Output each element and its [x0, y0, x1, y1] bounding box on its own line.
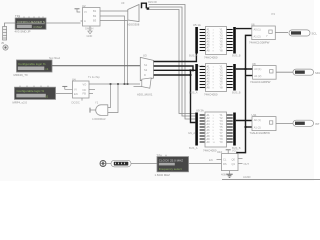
svg-text:GND: GND [87, 34, 93, 38]
svg-text:B2: B2 [93, 14, 97, 18]
wire: fan B to row3 bus [149, 7, 196, 116]
svg-text:CLOCK 25.0 MHZ: CLOCK 25.0 MHZ [159, 159, 184, 163]
svg-text:BUS_A: BUS_A [189, 54, 198, 58]
transceiver U2 [81, 4, 101, 38]
svg-text:VI: VI [84, 10, 87, 14]
row1 left pin dashes [200, 30, 206, 51]
svg-text:P4: P4 [272, 12, 276, 16]
wire: gate U6 output [275, 32, 288, 34]
svg-text:MRF49_TX: MRF49_TX [14, 73, 28, 77]
svg-text:74HC4050: 74HC4050 [204, 56, 218, 60]
wire: crystal left pin [90, 109, 96, 111]
power tick for crystal [89, 108, 91, 113]
thick wire: vertical net V2 feeding gate second inputs [237, 35, 252, 153]
wire: U4 output rail to mux [89, 83, 140, 85]
svg-text:AGND: AGND [243, 175, 251, 179]
wire: U2 pin B1 to level shifter [100, 10, 128, 12]
svg-text:U3: U3 [143, 53, 147, 57]
junction W2/W3 [192, 69, 194, 71]
svg-text:CONFIG HEADER S: CONFIG HEADER S [17, 20, 45, 24]
svg-text:Tx & chip: Tx & chip [88, 75, 100, 79]
svg-text:74AHC1G08PW: 74AHC1G08PW [250, 80, 271, 84]
junction dots on rail [110, 83, 112, 85]
svg-text:B1: B1 [93, 9, 97, 13]
svg-text:J5: J5 [1, 41, 4, 45]
svg-text:CL: CL [223, 158, 227, 162]
wire: B1 to mux [52, 65, 140, 67]
wire: crystal pin 2 up to rail [108, 84, 118, 113]
wire: U10 left stub [217, 159, 222, 161]
svg-text:Q1: Q1 [232, 162, 236, 166]
wire: B3 to U10 [189, 163, 222, 165]
svg-text:1.8432 MHZ: 1.8432 MHZ [155, 173, 171, 177]
svg-text:A0 (1): A0 (1) [254, 27, 261, 31]
svg-text:U5 1A: U5 1A [193, 23, 201, 27]
antenna connector J5 [1, 27, 7, 46]
svg-text:4 MHZ: 4 MHZ [33, 25, 42, 29]
buffer IC U5 [206, 27, 227, 55]
svg-text:TP1: TP1 [15, 14, 21, 18]
wire: gate U11 output [276, 122, 293, 124]
wire circle to oval [106, 163, 111, 165]
svg-text:A0 (1): A0 (1) [254, 118, 261, 122]
svg-text:4060: 4060 [221, 172, 227, 176]
row3 left pin dashes [200, 115, 205, 142]
svg-text:FB: FB [83, 92, 87, 96]
wire: U2 pin B2 down to analog bus [100, 16, 125, 84]
row3 right pin dashes [227, 115, 233, 142]
svg-text:SN65H: SN65H [85, 27, 93, 31]
wire: U2 pin B3 down to analog bus [100, 21, 128, 85]
svg-text:Configurable logic %: Configurable logic % [18, 62, 46, 66]
svg-text:Y1: Y1 [95, 100, 99, 104]
counter U10 [217, 150, 238, 171]
thick wire: V2 to gate G3 input 2 [246, 126, 253, 128]
thick wire W3: mux out 3 to row2 bus [154, 69, 197, 71]
svg-text:BUS_B: BUS_B [232, 91, 241, 95]
VCC symbol for U4 [62, 86, 72, 89]
svg-text:A: A [84, 19, 86, 23]
thick wire: row3 bus to gate G3 input 1 [236, 120, 252, 122]
row2 left pin dashes [200, 67, 206, 88]
svg-text:NC: NC [83, 88, 87, 92]
svg-text:GN_A: GN_A [188, 131, 195, 135]
net oval CLKOUT [111, 160, 131, 167]
thick wire: row1 bus to gate G1 input 1 [236, 28, 252, 30]
svg-text:Frequency select: Frequency select [159, 167, 182, 171]
VCC symbol above U2 [75, 9, 81, 12]
row2 right bus bar [233, 64, 236, 91]
config block B2 [13, 86, 56, 105]
wire: gate U8 output [276, 71, 293, 73]
svg-text:D: D [144, 73, 146, 77]
wire: fan C to row3 bus [149, 10, 196, 114]
junction V2 row3 [245, 126, 247, 128]
junction node [147, 7, 150, 9]
sheet background [0, 0, 320, 185]
svg-text:VO: VO [83, 83, 87, 87]
level shifter U9 (small trapezoid) [121, 1, 140, 27]
crystal Y1 (rounded-left shape) [92, 100, 108, 120]
net flag row2 [293, 69, 320, 75]
bottom rail wire [222, 179, 320, 181]
thick wire: row2 bus to gate G2 input 1 [236, 68, 253, 70]
svg-text:74HC4050: 74HC4050 [203, 149, 217, 153]
svg-text:EN: EN [74, 92, 78, 96]
regulator U4 [72, 78, 90, 105]
svg-text:VCC: VCC [232, 148, 238, 152]
gate U6 [249, 23, 275, 45]
svg-text:A0 (1): A0 (1) [254, 67, 261, 71]
svg-text:INT: INT [315, 122, 320, 126]
svg-text:Y2: Y2 [157, 153, 161, 157]
svg-text:ADG3308: ADG3308 [127, 23, 140, 27]
wire: jumper block to U2 [46, 22, 81, 24]
svg-text:MRF4_v2.0: MRF4_v2.0 [13, 100, 28, 104]
svg-text:4.0000MHZ: 4.0000MHZ [92, 117, 106, 121]
wire: connector to jumper block [5, 23, 16, 27]
svg-text:A1 (2): A1 (2) [254, 34, 261, 38]
svg-text:4V3 SMD JP: 4V3 SMD JP [15, 29, 31, 33]
svg-text:BUS_A: BUS_A [189, 91, 198, 95]
row2 right pin dashes [227, 67, 233, 88]
buffer IC U7 [206, 64, 227, 92]
wire: mux select stub [134, 85, 143, 87]
buffer IC row3 [205, 112, 227, 147]
svg-text:SCL: SCL [312, 32, 318, 36]
junction V2 row2 [245, 68, 247, 70]
svg-text:RS: RS [223, 162, 227, 166]
svg-text:BUS_A: BUS_A [189, 146, 198, 150]
row1 right bus bar [233, 27, 236, 54]
svg-text:Y: Y [266, 34, 268, 38]
svg-text:DC/DC: DC/DC [72, 100, 80, 104]
svg-text:Not fitted: Not fitted [49, 56, 61, 60]
ground below U10 [226, 171, 232, 178]
svg-text:VI: VI [74, 88, 77, 92]
svg-text:Configurable logic %: Configurable logic % [17, 89, 45, 93]
analog mux U3 (trapezoid) [137, 53, 154, 96]
svg-text:v2: v2 [45, 94, 49, 98]
wire: fan A to row3 bus [149, 5, 196, 120]
svg-text:EN: EN [209, 158, 213, 162]
svg-text:74AHC1G08PW: 74AHC1G08PW [250, 131, 271, 135]
svg-text:Q0: Q0 [232, 158, 236, 162]
jumper block TP1 (top-left dark block) [15, 14, 47, 34]
thick wire: V2 to gate G2 input 2 [246, 75, 253, 77]
svg-text:74HC4050: 74HC4050 [204, 93, 218, 97]
svg-text:R29 0R: R29 0R [148, 0, 157, 4]
wire: B2 to U4 [56, 93, 73, 95]
row3 left bus bar [195, 113, 198, 146]
thick wire W2: mux out 2 elbow [154, 66, 193, 70]
wire: oval to block B3 [131, 163, 157, 165]
thick wire W1: mux out 1 up to row1 bus [154, 53, 197, 61]
svg-text:ADG_MUX1: ADG_MUX1 [137, 93, 153, 97]
svg-text:v1: v1 [45, 67, 49, 71]
logo mark [3, 45, 8, 50]
svg-text:S2: S2 [144, 68, 148, 72]
svg-text:OUT: OUT [244, 162, 250, 166]
wire: U10 right stubs [238, 158, 243, 160]
gate U11 [250, 113, 277, 135]
thick feed elbow wire [142, 3, 147, 8]
svg-text:S1: S1 [144, 63, 148, 67]
svg-text:U9 3A: U9 3A [196, 108, 204, 112]
net flag row3 [293, 120, 320, 126]
svg-text:BUS_B: BUS_B [232, 54, 241, 58]
row3 right bus bar [233, 113, 236, 146]
config block B3 (oscillator block) [155, 153, 189, 177]
svg-text:U9: U9 [121, 1, 125, 5]
net flag row1 [289, 30, 317, 36]
wire: U4 short stubs [89, 89, 95, 91]
svg-text:B3: B3 [93, 19, 97, 23]
clock source circle [100, 161, 106, 167]
wire: crystal pin 1 up to rail [108, 84, 111, 108]
config block B1 (RF module, dark green-text block) [14, 60, 53, 77]
svg-text:A1 (2): A1 (2) [254, 125, 261, 129]
row1 left bus bar [195, 27, 198, 54]
svg-text:SDA: SDA [315, 71, 320, 75]
svg-text:A1 (2): A1 (2) [254, 74, 261, 78]
svg-text:74AHC1G08PW: 74AHC1G08PW [249, 40, 270, 44]
row2 left bus bar [195, 64, 198, 91]
gate U8 [250, 62, 276, 84]
thick wire W4: mux out 4 down to row3 bus [154, 74, 191, 76]
row1 right pin dashes [227, 30, 233, 51]
VCC symbol above U10 [226, 148, 238, 153]
